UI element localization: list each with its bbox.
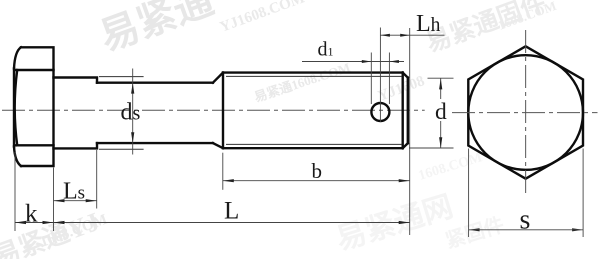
- svg-text:k: k: [25, 201, 38, 228]
- hex head end view: [468, 46, 583, 178]
- svg-text:d1: d1: [318, 39, 334, 61]
- svg-text:Lh: Lh: [416, 11, 441, 37]
- b arrows: [223, 179, 234, 182]
- Lh dimension line: [380, 34, 444, 36]
- svg-text:L: L: [224, 198, 239, 225]
- thread start vertical: [222, 73, 224, 149]
- hex head outline (side view): [21, 47, 54, 166]
- s arrows: [469, 228, 480, 231]
- hexagon: [468, 46, 583, 178]
- hex horizontal centerline: [452, 112, 598, 114]
- svg-text:b: b: [312, 159, 323, 183]
- end chamfer circle line: [402, 73, 404, 149]
- head top-left chamfer arc: [14, 47, 21, 68]
- ds arrows: [131, 83, 134, 94]
- svg-text:s: s: [520, 205, 531, 236]
- end chamfer slant top: [403, 73, 408, 78]
- svg-text:d: d: [435, 99, 447, 125]
- cotter pin hole: [371, 103, 389, 121]
- svg-text:易紧通网: 易紧通网: [332, 190, 456, 257]
- head lower facet line: [15, 144, 54, 146]
- inscribed circle: [468, 55, 583, 170]
- d1 arrows (outside): [362, 60, 372, 63]
- bolt end face: [407, 78, 409, 144]
- Ls dimension line: [54, 200, 97, 202]
- Ls edge projection line bottom: [99, 148, 144, 150]
- svg-text:YJ1608: YJ1608: [376, 73, 427, 105]
- b dimension line: [223, 180, 410, 182]
- thread minor diameter line bottom: [226, 143, 402, 145]
- head bottom-left chamfer arc: [14, 147, 21, 167]
- svg-text:ds: ds: [121, 99, 141, 125]
- ext line bolt end: [409, 28, 411, 235]
- k dimension line: [15, 222, 54, 224]
- d dimension line upper: [440, 78, 442, 99]
- ext line hole right edge: [388, 53, 390, 105]
- ext line s left: [468, 149, 470, 238]
- thread major diameter top: [223, 71, 403, 73]
- shank ds section: [97, 83, 213, 143]
- Ls edge projection line top: [99, 76, 144, 78]
- ext line Ls right: [96, 150, 98, 209]
- Ls arrows: [54, 199, 65, 202]
- arrowheads: [15, 34, 583, 232]
- ext line hole center: [379, 28, 381, 123]
- dimension texts: [25, 11, 530, 236]
- s dimension line: [469, 229, 583, 231]
- hex vertical centerline: [525, 30, 527, 194]
- thread major diameter bottom: [223, 147, 403, 149]
- ext line head left: [14, 152, 16, 231]
- dimension graphics: [15, 28, 454, 236]
- ds dimension line: [132, 69, 134, 155]
- svg-text:易紧通: 易紧通: [94, 0, 219, 59]
- head upper facet line: [15, 69, 54, 71]
- d dimension line lower: [440, 121, 442, 148]
- svg-text:易紧通1608.COM: 易紧通1608.COM: [252, 60, 352, 105]
- svg-text:易紧通YJ: 易紧通YJ: [0, 207, 103, 259]
- thread runout slant bottom: [213, 143, 223, 148]
- ext line d bottom: [409, 147, 454, 149]
- svg-text:YJ1608.COM: YJ1608.COM: [218, 0, 307, 36]
- ext line b left: [222, 153, 224, 190]
- svg-text:1608.COM: 1608.COM: [417, 150, 484, 184]
- thread runout slant top: [213, 73, 223, 83]
- end chamfer slant bottom: [403, 143, 408, 148]
- thread minor diameter line top: [226, 75, 402, 77]
- L arrows: [54, 221, 65, 224]
- k arrows: [15, 221, 26, 224]
- ext line head right: [53, 168, 55, 232]
- ext line d top: [428, 77, 454, 79]
- ext line s right: [582, 149, 584, 238]
- d arrows: [439, 78, 442, 89]
- Lh arrows: [380, 34, 390, 37]
- d1 dimension line: [302, 61, 404, 63]
- svg-text:Ls: Ls: [63, 178, 85, 204]
- head left face edge: [13, 69, 15, 147]
- shank Ls section: [54, 78, 98, 149]
- main centerline of bolt axis: [2, 109, 425, 111]
- L dimension line: [54, 222, 410, 224]
- head middle facet arc: [15, 70, 18, 145]
- ext line hole left edge: [370, 53, 372, 105]
